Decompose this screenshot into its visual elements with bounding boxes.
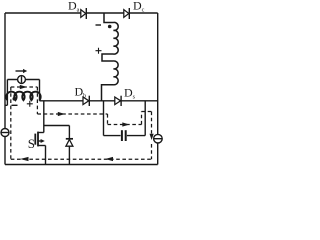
wire switch drain vertical — [43, 101, 45, 133]
diode Db — [83, 96, 89, 106]
transistor S (MOSFET) — [35, 132, 45, 165]
capacitor loop bottom left — [104, 135, 121, 137]
wire bottom rail — [5, 164, 158, 166]
wire drain node to clamp diode — [44, 125, 70, 127]
input source bar — [1, 132, 9, 134]
label plus (primary) — [27, 101, 33, 107]
dashed current path primary right vertical — [36, 87, 38, 114]
capacitor C plates — [121, 130, 123, 141]
winding L2 (secondary, lower section) — [102, 61, 119, 101]
load source bar — [154, 138, 162, 140]
arrow on dashed bottom (left) at right — [105, 157, 113, 161]
inductor L1 coil (bold) — [6, 92, 40, 101]
diode Ds — [115, 96, 121, 106]
arrow on dashed mid (right) — [58, 112, 65, 116]
dashed current path bottom horizontal — [11, 158, 152, 160]
dashed current path mid horizontal — [37, 113, 107, 115]
diode clamp (vertical) — [66, 126, 73, 165]
diode Dc — [124, 8, 130, 19]
diode Da — [81, 8, 87, 19]
winding L2 (secondary, upper section) — [102, 13, 118, 61]
label plus (secondary) — [96, 48, 102, 54]
dashed current path right vertical — [151, 112, 153, 134]
capacitor loop right side — [144, 101, 146, 136]
current source bar — [21, 76, 23, 83]
primary loop left side — [6, 80, 8, 106]
capacitor loop bottom right — [127, 135, 145, 137]
primary loop right side — [39, 80, 41, 101]
dashed current path top-left horizontal — [11, 86, 38, 88]
label minus (primary) — [12, 104, 18, 106]
coupled inductor L1 (primary) loop top wire — [7, 79, 39, 81]
svg-text:Db: Db — [75, 85, 87, 100]
svg-text:Ds: Ds — [124, 86, 136, 101]
wire right rail — [157, 13, 159, 135]
svg-text:S: S — [28, 136, 35, 151]
arrow on dashed bottom (left) at left — [20, 157, 29, 161]
wire mid rail (diode row) — [40, 100, 84, 102]
arrow on dashed top-left (right) — [20, 85, 27, 89]
label minus (secondary) — [96, 24, 102, 26]
wire top rail — [5, 12, 81, 14]
capacitor loop left side — [103, 101, 105, 136]
arrow on dashed right vertical (down) — [150, 134, 154, 140]
arrow annotation above source — [16, 70, 24, 72]
load source circle (right rail) — [154, 134, 163, 143]
dashed current path left vertical — [11, 87, 152, 159]
svg-text:Dc: Dc — [133, 0, 145, 14]
arrow on dashed cap loop (right) — [122, 122, 129, 126]
dashed current path into cap loop — [107, 114, 109, 125]
svg-text:Da: Da — [68, 0, 80, 14]
polarity dot secondary — [108, 25, 112, 29]
stub rail to coil — [5, 104, 7, 106]
polarity dot primary — [13, 97, 17, 101]
input source circle (left rail) — [1, 129, 9, 137]
current source circle (primary branch) — [18, 76, 26, 84]
wire left rail — [4, 13, 6, 129]
